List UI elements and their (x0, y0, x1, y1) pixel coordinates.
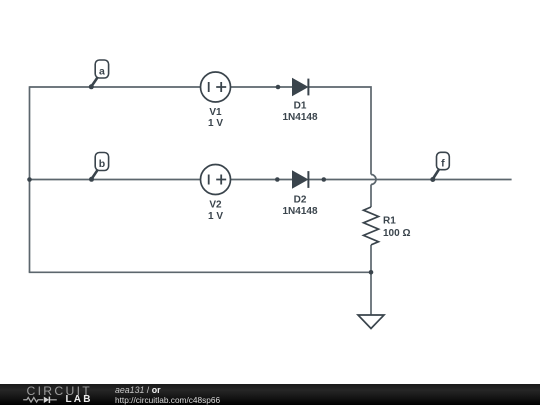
svg-text:V1: V1 (209, 107, 222, 118)
svg-text:f: f (441, 158, 445, 170)
wire: left vertical bus (29, 86, 31, 272)
svg-text:1N4148: 1N4148 (282, 112, 317, 123)
diode D2 (275, 171, 326, 188)
wire: R1 bottom through junction to ground (370, 245, 372, 315)
junction: bottom wire and ground branch (369, 270, 374, 275)
wire: D2 cathode to node f and right end (309, 179, 512, 181)
label D2 value 1N4148 (282, 206, 317, 217)
voltage source V1 (201, 72, 231, 102)
wire: hop (no connection) over node f row (371, 175, 376, 185)
resistor R1 (364, 207, 379, 245)
voltage source V2 (201, 165, 231, 195)
label D1 (294, 101, 307, 112)
node flag f (430, 152, 449, 182)
footer text: user / circuit name (115, 386, 161, 395)
svg-text:100 Ω: 100 Ω (383, 228, 410, 239)
node flag b (89, 153, 109, 182)
label D1 value 1N4148 (282, 112, 317, 123)
label R1 (383, 216, 396, 227)
label V2 (209, 200, 222, 211)
footer bar (0, 384, 540, 405)
footer text: url (115, 396, 220, 404)
wire: D1 cathode to top-right corner and down (309, 87, 372, 175)
CircuitLab logo waveform (22, 395, 68, 405)
label V1 (209, 107, 222, 118)
svg-text:1 V: 1 V (208, 118, 223, 129)
svg-text:R1: R1 (383, 216, 396, 227)
svg-text:D2: D2 (294, 195, 307, 206)
wire: V1 to D1 anode (231, 86, 293, 88)
label V2 value 1 V (208, 211, 223, 222)
node flag a (89, 60, 109, 89)
wire: V2 to D2 anode (231, 179, 293, 181)
diode D1 (276, 79, 309, 96)
label R1 value 100 ohm (383, 228, 410, 239)
wire: hop to R1 top (370, 185, 372, 208)
svg-text:1N4148: 1N4148 (282, 206, 317, 217)
wire: bottom horizontal to R1/ground branch (29, 271, 371, 273)
junction: left bus and node b row (27, 177, 32, 182)
label D2 (294, 195, 307, 206)
wire: node b row, left segment to V2 (30, 179, 201, 181)
svg-text:V2: V2 (209, 200, 222, 211)
ground (358, 315, 384, 329)
wire: node a row, left segment to V1 (30, 86, 201, 88)
svg-text:1 V: 1 V (208, 211, 223, 222)
svg-text:a: a (99, 66, 105, 78)
svg-text:b: b (99, 158, 105, 170)
svg-text:D1: D1 (294, 101, 307, 112)
label V1 value 1 V (208, 118, 223, 129)
CircuitLab logo wordmark (27, 385, 93, 397)
